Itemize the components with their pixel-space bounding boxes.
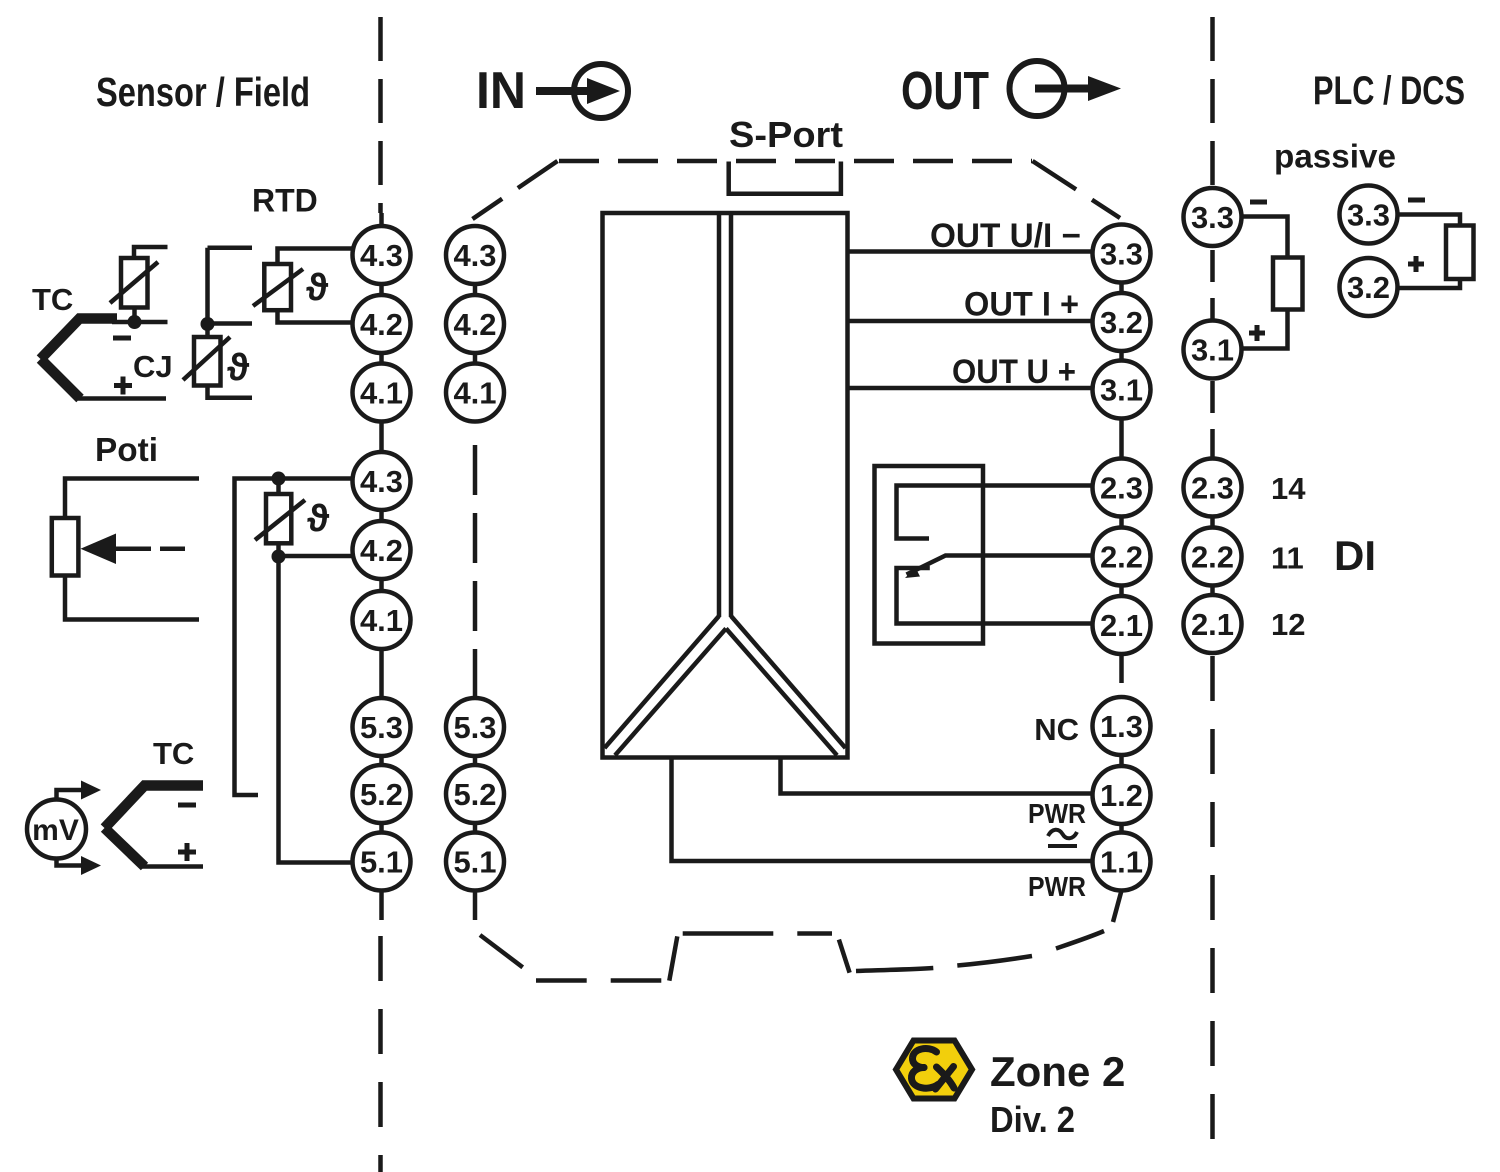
svg-text:4.1: 4.1 xyxy=(360,603,403,638)
zone boundary dashed line left (Sensor/Field side) xyxy=(378,17,383,1172)
junction node Poti top xyxy=(272,472,286,486)
svg-text:RTD: RTD xyxy=(252,183,318,219)
svg-text:4.3: 4.3 xyxy=(360,464,403,499)
wire thermistor to terminal 5.1 xyxy=(279,557,353,863)
junction node at CJ xyxy=(201,317,215,331)
svg-text:4.3: 4.3 xyxy=(360,238,403,273)
thermistor at Poti input xyxy=(255,479,354,557)
svg-text:ϑ: ϑ xyxy=(306,267,329,309)
mV source xyxy=(27,781,101,876)
isolator Y symbol inside device xyxy=(605,213,846,755)
terminal labels col4 xyxy=(1191,200,1234,642)
svg-text:3.3: 3.3 xyxy=(1100,237,1143,272)
zone boundary dashed line right (PLC/DCS side) xyxy=(1210,17,1215,1166)
svg-text:4.2: 4.2 xyxy=(453,307,496,342)
terminal labels col3 xyxy=(1100,237,1143,880)
device body xyxy=(603,213,848,758)
svg-text:OUT I +: OUT I + xyxy=(964,286,1079,324)
terminal 5.3 col2 xyxy=(446,698,504,756)
svg-text:2.1: 2.1 xyxy=(1100,608,1143,643)
terminal 5.1 col1 xyxy=(353,833,411,891)
terminal 4.1b col1 xyxy=(353,591,411,649)
svg-text:Zone 2: Zone 2 xyxy=(990,1048,1125,1095)
svg-text:ϑ: ϑ xyxy=(307,498,330,540)
terminal 4.2 col2 xyxy=(446,295,504,353)
svg-text:5.2: 5.2 xyxy=(453,777,496,812)
resistor CJ cold junction xyxy=(183,248,252,398)
terminal 3.1 col3 xyxy=(1093,361,1151,419)
terminal 3.3 col4 xyxy=(1184,188,1242,246)
terminal 3.2 col3 xyxy=(1093,293,1151,351)
svg-text:PWR: PWR xyxy=(1028,798,1086,829)
svg-text:4.1: 4.1 xyxy=(453,376,496,411)
terminal 3.1 col4 xyxy=(1184,321,1242,379)
OUT arrow icon xyxy=(1010,61,1122,116)
svg-text:TC: TC xyxy=(32,282,73,317)
minus sign at TC upper xyxy=(113,336,131,341)
resistor RTD xyxy=(253,249,354,323)
junction node at TC upper xyxy=(128,315,142,329)
wire OUT I+ to terminal 3.2 xyxy=(848,319,1095,324)
svg-text:DI: DI xyxy=(1334,532,1376,579)
terminal 1.2 col3 xyxy=(1093,766,1151,824)
AC/DC symbol at PWR xyxy=(1048,830,1077,846)
svg-text:11: 11 xyxy=(1271,541,1304,576)
svg-text:2.3: 2.3 xyxy=(1191,471,1234,506)
svg-text:PWR: PWR xyxy=(1028,871,1086,902)
svg-text:CJ: CJ xyxy=(133,349,173,384)
wire Poti rail to TC lower area xyxy=(235,479,354,796)
terminal column 3 connector lines xyxy=(1119,254,1124,862)
terminal 4.2 col1 xyxy=(353,295,411,353)
thermocouple TC lower chevron xyxy=(105,786,204,867)
wire OUT U+ to terminal 3.1 xyxy=(848,386,1095,391)
wire OUT U/I- to terminal 3.3 xyxy=(848,249,1095,254)
svg-text:3.1: 3.1 xyxy=(1191,333,1234,368)
svg-text:Sensor / Field: Sensor / Field xyxy=(96,69,310,115)
terminal labels far right xyxy=(1347,198,1390,306)
terminal 4.2b col1 xyxy=(353,521,411,579)
junction node thermistor bottom xyxy=(272,550,286,564)
terminal 2.1 col4 xyxy=(1184,595,1242,653)
IN arrow icon xyxy=(536,64,628,118)
svg-text:5.3: 5.3 xyxy=(360,710,403,745)
svg-text:2.1: 2.1 xyxy=(1191,607,1234,642)
svg-text:5.2: 5.2 xyxy=(360,777,403,812)
svg-text:ϑ: ϑ xyxy=(227,347,250,389)
wire device pin to terminal 1.2 xyxy=(781,757,1095,794)
terminal 3.3 far right xyxy=(1340,186,1398,244)
wire device pin to terminal 1.1 xyxy=(672,757,1095,861)
compensating resistor at TC upper xyxy=(110,247,168,322)
terminal 1.3 col3 xyxy=(1093,697,1151,755)
svg-text:2.3: 2.3 xyxy=(1100,471,1143,506)
terminal 5.2 col1 xyxy=(353,765,411,823)
svg-text:3.2: 3.2 xyxy=(1100,305,1143,340)
load resistor at passive terminals 3.3/3.1 xyxy=(1242,217,1303,349)
terminal 2.2 col4 xyxy=(1184,528,1242,586)
svg-text:2.2: 2.2 xyxy=(1100,540,1143,575)
minus sign at col4 3.3 xyxy=(1250,200,1267,205)
svg-text:passive: passive xyxy=(1274,138,1396,175)
thermocouple TC upper chevron xyxy=(41,319,168,399)
svg-text:NC: NC xyxy=(1034,712,1079,747)
device outline dashed bottom with DIN foot xyxy=(475,890,1122,981)
terminal 5.1 col2 xyxy=(446,833,504,891)
svg-text:1.2: 1.2 xyxy=(1100,778,1143,813)
svg-text:5.3: 5.3 xyxy=(453,710,496,745)
terminal 2.3 col3 xyxy=(1093,459,1151,517)
svg-text:4.2: 4.2 xyxy=(360,533,403,568)
terminal labels col1 xyxy=(360,238,403,880)
potentiometer Poti xyxy=(52,479,199,620)
terminal 2.1 col3 xyxy=(1093,596,1151,654)
svg-text:5.1: 5.1 xyxy=(453,845,496,880)
svg-text:mV: mV xyxy=(32,814,79,847)
svg-text:OUT: OUT xyxy=(901,61,989,121)
device outline dashed col2 middle xyxy=(473,445,478,697)
plus sign at TC upper xyxy=(114,377,132,395)
Ex hexagon logo xyxy=(896,1041,972,1099)
terminal labels col2 xyxy=(453,238,496,880)
load resistor at passive terminals 3.3/3.2 far right xyxy=(1398,215,1474,289)
terminal 5.3 col1 xyxy=(353,698,411,756)
svg-text:12: 12 xyxy=(1271,607,1305,642)
plus sign at far right 3.2 xyxy=(1408,256,1424,272)
terminal 4.3b col1 xyxy=(353,452,411,510)
svg-text:3.2: 3.2 xyxy=(1347,270,1390,305)
svg-text:14: 14 xyxy=(1271,471,1306,506)
terminal 5.2 col2 xyxy=(446,765,504,823)
svg-text:4.1: 4.1 xyxy=(360,376,403,411)
terminal 3.2 far right xyxy=(1340,258,1398,316)
terminal column 4 connector lines xyxy=(1210,488,1215,625)
svg-text:4.2: 4.2 xyxy=(360,307,403,342)
terminal 4.1 col1 xyxy=(353,364,411,422)
terminal 4.3 col1 xyxy=(353,226,411,284)
terminal 4.3 col2 xyxy=(446,226,504,284)
svg-text:3.1: 3.1 xyxy=(1100,373,1143,408)
svg-text:TC: TC xyxy=(153,736,194,771)
svg-text:3.3: 3.3 xyxy=(1347,198,1390,233)
plus sign at TC lower xyxy=(178,843,196,861)
svg-text:2.2: 2.2 xyxy=(1191,540,1234,575)
terminal column 2 connector lines xyxy=(473,255,478,862)
S-Port connector bracket xyxy=(729,162,841,194)
svg-text:Div. 2: Div. 2 xyxy=(990,1099,1075,1140)
svg-text:OUT U +: OUT U + xyxy=(952,353,1076,391)
terminal 3.3 col3 xyxy=(1093,225,1151,283)
svg-text:PLC / DCS: PLC / DCS xyxy=(1313,69,1465,113)
terminal 4.1 col2 xyxy=(446,364,504,422)
svg-text:4.3: 4.3 xyxy=(453,238,496,273)
svg-text:Poti: Poti xyxy=(95,431,158,468)
relay contact block xyxy=(875,466,1095,644)
terminal 1.1 col3 xyxy=(1093,833,1151,891)
svg-text:S-Port: S-Port xyxy=(729,114,843,155)
terminal column 1 connector lines xyxy=(379,213,384,920)
minus sign at far right 3.3 xyxy=(1408,198,1425,203)
svg-text:1.1: 1.1 xyxy=(1100,845,1143,880)
svg-text:5.1: 5.1 xyxy=(360,845,403,880)
svg-text:OUT U/I −: OUT U/I − xyxy=(930,217,1081,255)
svg-text:1.3: 1.3 xyxy=(1100,709,1143,744)
device outline dashed top xyxy=(473,161,1121,219)
minus sign at TC lower xyxy=(178,803,196,808)
terminal 2.2 col3 xyxy=(1093,528,1151,586)
svg-text:IN: IN xyxy=(476,62,526,120)
plus sign at col4 3.1 xyxy=(1249,325,1265,341)
svg-text:3.3: 3.3 xyxy=(1191,200,1234,235)
terminal 2.3 col4 xyxy=(1184,459,1242,517)
